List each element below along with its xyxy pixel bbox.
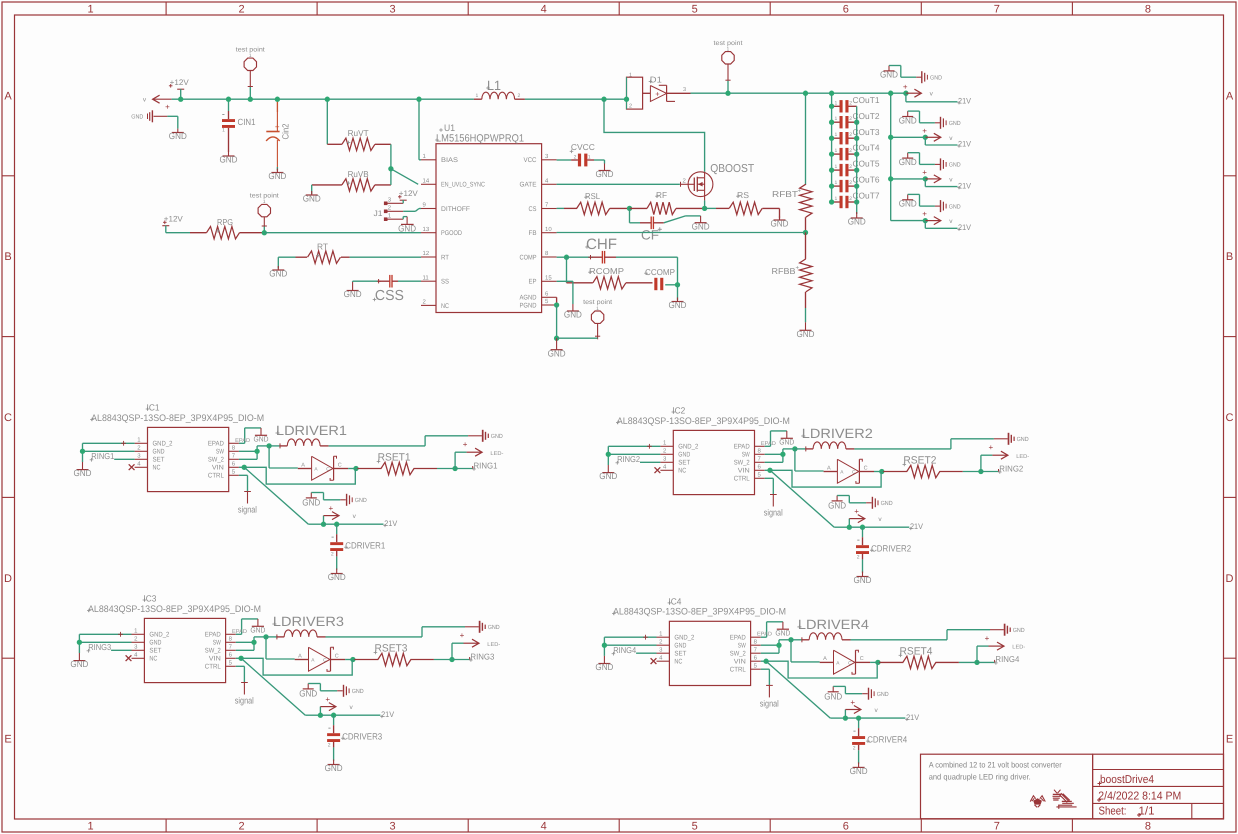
junction diode C node [875, 660, 880, 665]
wire RING4 to SET [636, 652, 656, 654]
resistor RS [705, 190, 780, 215]
jumper J1 [374, 197, 404, 222]
svg-text:GND: GND [880, 70, 898, 80]
ground GND (CF) [692, 216, 710, 231]
svg-text:LED-: LED- [1012, 645, 1025, 651]
svg-text:1: 1 [835, 100, 838, 106]
svg-text:GND: GND [398, 223, 416, 233]
svg-text:RFBB: RFBB [772, 266, 796, 276]
svg-text:GND: GND [949, 120, 962, 127]
ground GND (RT) [269, 266, 287, 279]
svg-text:21V: 21V [384, 519, 398, 528]
connector pin v (21V) [320, 695, 353, 715]
svg-text:8: 8 [1145, 821, 1151, 833]
svg-text:BIAS: BIAS [441, 157, 458, 164]
junction feeder 3 [888, 176, 893, 181]
wire 21V to CDRIVER3 [333, 715, 335, 725]
svg-text:RING2: RING2 [999, 463, 1023, 473]
svg-text:A: A [1226, 90, 1234, 102]
svg-text:GND: GND [692, 221, 710, 231]
svg-text:C: C [335, 653, 339, 659]
wire VIN loop [239, 467, 355, 484]
svg-text:21V: 21V [906, 713, 920, 722]
ground GND (RuVB) [303, 191, 321, 204]
svg-text:+12V: +12V [164, 215, 184, 224]
svg-text:GND: GND [149, 640, 161, 647]
junction IC4 GND node [602, 643, 607, 648]
connector pin v (21V) [845, 698, 878, 718]
svg-text:GND: GND [254, 435, 270, 444]
ground GND (EPAD) [779, 431, 795, 447]
wire CDRIVER4 to GND [858, 750, 860, 763]
svg-text:+: + [165, 103, 170, 112]
wire node to LED- connector [452, 643, 464, 659]
connector pin LED- (arrow) [989, 443, 1030, 460]
resistor RuVT [327, 128, 391, 151]
svg-text:GND: GND [328, 572, 346, 582]
test point TP (input bus) [236, 46, 265, 87]
wire feeder to conn2 [891, 136, 926, 138]
connector pin v (21V) [849, 507, 882, 527]
svg-text:C: C [1226, 412, 1234, 424]
ground GND (CDRIVER3) [325, 760, 343, 774]
svg-text:E: E [4, 734, 11, 746]
wire QBOOST gate to U1 pin 4 [557, 182, 681, 187]
wire VIN loop [765, 470, 881, 487]
junction bus/+12V [178, 97, 183, 102]
svg-text:J1: J1 [374, 209, 384, 218]
wire RING2 to SET [640, 461, 660, 463]
diode D (LED driver 1) [298, 456, 348, 480]
svg-text:RF: RF [656, 190, 667, 200]
svg-text:GND: GND [854, 575, 872, 585]
connector pin v (output 2) [922, 126, 953, 141]
wire node to U1 pin 14 (diagonal) [391, 169, 418, 185]
svg-text:A: A [298, 653, 302, 659]
svg-text:RSET2: RSET2 [903, 455, 936, 467]
svg-text:RT: RT [441, 254, 449, 261]
svg-text:GND: GND [70, 659, 88, 669]
svg-text:NC: NC [674, 659, 682, 666]
svg-text:GND: GND [930, 74, 943, 81]
svg-text:RuVT: RuVT [348, 128, 369, 138]
svg-text:2: 2 [328, 743, 331, 749]
diode D1 [627, 72, 691, 109]
junction RSET node [449, 657, 454, 662]
wire J1 pin1 to GND [403, 217, 407, 220]
svg-text:EPAD: EPAD [757, 632, 772, 638]
svg-text:GND: GND [779, 438, 795, 447]
svg-text:2/4/2022 8:14 PM: 2/4/2022 8:14 PM [1098, 790, 1181, 802]
svg-text:1: 1 [476, 93, 479, 99]
junction rail/conn1 [903, 91, 908, 96]
svg-text:+: + [922, 168, 927, 177]
junction VIN [763, 659, 768, 664]
svg-text:21V: 21V [958, 140, 972, 149]
svg-text:EPAD: EPAD [730, 635, 746, 642]
junction rail/TP3 [725, 91, 730, 96]
wire 21V line [849, 526, 909, 528]
svg-text:signal: signal [235, 696, 254, 706]
wire node to LED- connector [981, 455, 993, 471]
ground earth GND (LED+) [465, 621, 500, 633]
junction conn3 [923, 176, 928, 181]
svg-text:GND_2: GND_2 [149, 632, 169, 639]
svg-text:C: C [4, 412, 12, 424]
wire RING1 to SET [114, 458, 134, 460]
wire CSS to U1 pin 11 [398, 280, 421, 282]
junction diode C node [353, 466, 358, 471]
wire CS to RSL [557, 207, 577, 209]
svg-text:3: 3 [683, 87, 686, 93]
junction D1 anode [624, 97, 629, 102]
svg-text:PGND: PGND [520, 302, 537, 309]
wire RuVB to GND [311, 185, 313, 194]
junction bus/QBOOST drain [601, 97, 606, 102]
svg-text:GND: GND [595, 662, 613, 672]
ground GND (EPAD) [250, 619, 266, 635]
junction bus/BIAS [416, 97, 421, 102]
svg-text:GATE: GATE [520, 182, 537, 189]
wire RSET2 to node [963, 471, 981, 473]
ground GND (CVCC) [596, 164, 614, 180]
svg-text:GND: GND [344, 289, 362, 299]
svg-text:C: C [848, 660, 852, 666]
svg-text:C: C [864, 465, 868, 471]
svg-text:FB: FB [529, 230, 537, 237]
wire VIN to 21V (diagonal) [770, 470, 849, 527]
connector pin v (input, arrow left) [143, 95, 172, 111]
wire 21V line [320, 714, 380, 716]
svg-text:1: 1 [835, 164, 838, 170]
svg-text:CDRIVER2: CDRIVER2 [871, 544, 911, 554]
junction VIN [767, 468, 772, 473]
svg-text:1: 1 [588, 155, 591, 161]
connector pin signal [760, 685, 779, 708]
svg-text:EPAD: EPAD [734, 444, 750, 451]
svg-text:L1: L1 [487, 78, 501, 93]
wire RSET1 to node [437, 468, 455, 470]
svg-text:2: 2 [518, 93, 521, 99]
inductor L1 [474, 78, 525, 99]
svg-text:+12V: +12V [170, 78, 190, 87]
junction diode C node [879, 469, 884, 474]
wire LDRIVER3 to GND comb [326, 627, 466, 637]
svg-text:GND: GND [220, 155, 238, 165]
svg-text:2: 2 [849, 132, 852, 138]
svg-text:AL8843QSP-13SO-8EP_3P9X4P95_DI: AL8843QSP-13SO-8EP_3P9X4P95_DIO-M [613, 607, 786, 618]
junction bus/TP1 [248, 97, 253, 102]
inductor LDRIVER2 [795, 426, 873, 451]
net label RING1 (left) [90, 451, 115, 462]
svg-text:6: 6 [843, 821, 849, 833]
wire rail to COUT bank [831, 93, 833, 202]
svg-text:3: 3 [390, 821, 396, 833]
wire AGND to PGND [556, 297, 558, 305]
svg-text:RING3: RING3 [470, 651, 494, 661]
ground GND (IC3 left) [70, 653, 88, 669]
svg-text:12: 12 [423, 250, 430, 257]
svg-text:GND: GND [299, 688, 317, 698]
IC IC1 AL8843QSP (LED driver) [129, 427, 239, 491]
svg-text:2: 2 [239, 821, 245, 833]
wire node to diode A [791, 640, 820, 662]
svg-text:AL8843QSP-13SO-8EP_3P9X4P95_DI: AL8843QSP-13SO-8EP_3P9X4P95_DIO-M [91, 413, 264, 424]
svg-text:SW: SW [742, 452, 750, 459]
svg-text:1/1: 1/1 [1139, 805, 1155, 817]
wire VIN to 21V (diagonal) [766, 661, 845, 718]
junction node COMP [564, 255, 569, 260]
wire SW/SW_2 to LDRIVER4 [761, 640, 791, 653]
svg-text:GND: GND [848, 217, 866, 227]
wire diode C to RSET1 [348, 468, 356, 470]
wire RuVT to node [390, 144, 392, 169]
junction RSET node [452, 466, 457, 471]
wire IC1 pins 1-2 to GND [83, 441, 135, 462]
svg-text:GND: GND [250, 626, 266, 635]
wire VIN loop [236, 658, 352, 675]
ground GND (input flag) [169, 129, 187, 142]
svg-text:EPAD: EPAD [235, 438, 250, 444]
wire node to RING3 [452, 657, 470, 660]
svg-text:GND: GND [669, 300, 687, 310]
wire EPAD to GND [765, 431, 787, 446]
wire COMP to node [557, 256, 567, 258]
junction LDRIVER4 node [788, 637, 793, 642]
svg-text:+: + [460, 631, 465, 640]
capacitor COUT3 [832, 127, 880, 145]
ground GND (RFBB) [797, 322, 815, 339]
wire CTRL to signal [236, 666, 245, 682]
svg-text:1: 1 [835, 180, 838, 186]
ground GND (PGND) [548, 338, 566, 358]
title block frame [921, 754, 1224, 819]
svg-text:GND: GND [488, 624, 501, 631]
ground GND (IC1 left) [74, 462, 92, 478]
junction COUT7 right [854, 199, 859, 204]
capacitor CSS [373, 275, 404, 304]
svg-text:LDRIVER4: LDRIVER4 [798, 617, 870, 632]
junction SW node [776, 643, 781, 648]
svg-text:RSET4: RSET4 [900, 646, 933, 658]
svg-text:21V: 21V [958, 223, 972, 232]
ground earth GND (LED+) [468, 430, 503, 442]
test point TP (PGOOD) [250, 193, 279, 227]
svg-text:VCC: VCC [524, 157, 537, 164]
junction COUT1 left [829, 104, 834, 109]
junction conn4 [923, 218, 928, 223]
svg-text:E: E [1226, 734, 1233, 746]
resistor RT [296, 242, 350, 264]
capacitor CHF [567, 236, 618, 264]
wire bus to CIN1 [228, 99, 230, 119]
svg-text:VIN: VIN [212, 465, 224, 472]
junction 21V b [334, 522, 339, 527]
ground earth GND (LED+) [990, 624, 1025, 636]
wire VIN to 21V (diagonal) [241, 658, 320, 715]
wire VIN to 21V (diagonal) [244, 467, 323, 524]
svg-text:GND: GND [325, 763, 343, 773]
test point TP (PGND) [583, 299, 612, 339]
junction node RF/RS/QBOOST [702, 206, 707, 211]
net label EPAD [232, 629, 247, 635]
svg-text:RT: RT [317, 242, 328, 252]
wire 21V line [324, 523, 384, 525]
transistor QBOOST (N-MOSFET) [680, 163, 754, 200]
wire CIN1 to GND [228, 128, 230, 152]
junction VIN [238, 656, 243, 661]
net label RING4 (left) [612, 645, 637, 656]
capacitor CDRIVER3 [327, 723, 382, 749]
svg-text:SET: SET [674, 651, 686, 658]
ground GND (Cin2) [268, 169, 286, 182]
ground pair GND (output 2) [899, 111, 962, 129]
svg-text:GND: GND [1017, 436, 1030, 443]
svg-text:GND: GND [877, 691, 890, 698]
svg-text:2: 2 [849, 148, 852, 154]
svg-text:CCOMP: CCOMP [645, 267, 675, 277]
svg-text:1: 1 [222, 128, 225, 134]
junction rail/RFBT [803, 91, 808, 96]
wire RuVB to node [390, 169, 392, 185]
resistor RCOMP [567, 257, 653, 289]
svg-text:GND: GND [268, 171, 286, 181]
svg-text:and quadruple LED ring driver.: and quadruple LED ring driver. [929, 772, 1031, 781]
svg-text:-: - [328, 723, 331, 733]
wire RS to GND [779, 208, 781, 218]
wire earth to GND flag [167, 116, 177, 128]
wire TP3 to rail [727, 81, 729, 93]
svg-text:10: 10 [545, 226, 552, 233]
svg-text:6: 6 [843, 4, 849, 16]
wire IC2 pins 1-2 to GND [608, 444, 660, 465]
resistor RSET2 [882, 455, 963, 478]
svg-text:11: 11 [423, 274, 430, 281]
capacitor COUT7 [832, 191, 880, 209]
svg-text:RS: RS [737, 190, 749, 200]
ground pair GND (21V) [302, 493, 367, 508]
svg-text:A: A [301, 462, 305, 468]
svg-text:NC: NC [678, 468, 686, 475]
svg-text:+: + [796, 266, 800, 272]
svg-text:+: + [922, 210, 927, 219]
svg-text:1: 1 [87, 4, 93, 16]
svg-text:2: 2 [239, 4, 245, 16]
ground pair GND (output 3) [899, 153, 962, 171]
junction 21V b [856, 715, 861, 720]
svg-text:signal: signal [238, 505, 257, 515]
svg-text:RING3: RING3 [88, 642, 111, 652]
connector pin signal [238, 492, 257, 515]
connector pin v (output 1) [903, 82, 934, 97]
wire feeder to conn4 [891, 220, 926, 222]
wire 21V to CDRIVER1 [336, 524, 338, 534]
diode D (LED driver 2) [824, 459, 874, 483]
svg-text:SW: SW [213, 640, 221, 647]
wire SW/SW_2 to LDRIVER3 [236, 637, 266, 650]
svg-text:+: + [989, 443, 994, 452]
wire conn4 to 21V [925, 221, 957, 229]
net label EPAD [761, 441, 776, 447]
svg-text:GND: GND [899, 115, 917, 125]
title block sheet [1099, 805, 1155, 817]
net label 21V (driver 2) [909, 522, 923, 531]
ground GND (IC2 left) [599, 465, 617, 481]
wire bus to Cin2 [276, 99, 278, 112]
ground GND (IC4 left) [595, 656, 613, 672]
svg-text:GND: GND [850, 766, 868, 776]
ground GND (RS) [771, 216, 789, 229]
wire EPAD to GND [236, 619, 258, 634]
svg-text:AGND: AGND [520, 295, 537, 302]
junction LDRIVER2 node [792, 446, 797, 451]
junction IC2 GND node [606, 452, 611, 457]
junction node CCOMP/GND [675, 282, 680, 287]
capacitor COUT2 [832, 111, 880, 129]
junction node FB [803, 230, 808, 235]
svg-text:GND: GND [596, 169, 614, 179]
svg-text:IC2: IC2 [672, 406, 685, 416]
svg-text:IC1: IC1 [147, 403, 160, 413]
svg-text:EPAD: EPAD [232, 629, 247, 635]
wire PGND down [556, 305, 558, 338]
svg-text:-: - [853, 725, 856, 735]
resistor RSET3 [353, 643, 434, 666]
svg-text:GND: GND [131, 114, 144, 121]
wire 21V to CDRIVER4 [858, 718, 860, 728]
svg-text:SET: SET [149, 648, 161, 655]
net label 21V (output 2) [957, 140, 971, 149]
wire node to RING1 [455, 466, 473, 469]
ground GND (CSS) [344, 282, 362, 299]
svg-text:SET: SET [153, 457, 165, 464]
junction LDRIVER3 node [263, 634, 268, 639]
svg-text:GND: GND [599, 471, 617, 481]
wire VIN loop [761, 661, 877, 678]
IC2 AL8843QSP label [616, 406, 790, 427]
junction SW node [254, 449, 259, 454]
svg-text:SW_2: SW_2 [208, 457, 224, 464]
capacitor COUT4 [832, 143, 880, 161]
svg-text:signal: signal [764, 508, 783, 518]
svg-text:2: 2 [853, 745, 856, 751]
svg-text:CTRL: CTRL [208, 473, 224, 480]
junction conn2 [923, 135, 928, 140]
junction COUT5 right [854, 167, 859, 172]
wire node to LED- connector [977, 646, 989, 662]
svg-text:GND: GND [355, 497, 368, 504]
wire CTRL to signal [239, 475, 248, 491]
junction AGND/PGND [554, 302, 559, 307]
svg-text:IC3: IC3 [143, 594, 156, 604]
svg-text:SW: SW [216, 449, 224, 456]
svg-text:CS: CS [529, 206, 537, 213]
wire output rail [691, 92, 906, 94]
wire SW/SW_2 to LDRIVER2 [765, 449, 795, 462]
svg-text:GND: GND [771, 219, 789, 229]
junction bus/CIN1 [226, 97, 231, 102]
junction diode C node [350, 657, 355, 662]
svg-text:21V: 21V [910, 522, 924, 531]
svg-text:LED-: LED- [487, 642, 500, 648]
resistor RFBB [772, 233, 813, 323]
net label 21V (driver 1) [383, 519, 397, 528]
ground pair GND (output 4) [899, 194, 962, 212]
svg-text:2: 2 [849, 180, 852, 186]
capacitor CVCC [557, 142, 595, 166]
wire RT to U1 pin 12 [350, 256, 421, 258]
svg-text:CHF: CHF [586, 236, 617, 253]
